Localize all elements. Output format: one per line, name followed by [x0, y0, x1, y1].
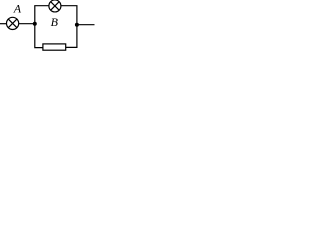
svg-text:B: B: [51, 15, 59, 29]
wire A to left node: [19, 23, 35, 25]
wire left branch loop: [35, 6, 49, 48]
lamp B: [49, 0, 61, 12]
wire right branch loop: [61, 6, 77, 48]
node left junction: [33, 22, 37, 26]
node right junction: [75, 23, 79, 27]
wire left input: [0, 23, 7, 25]
wire right output: [77, 24, 95, 26]
lamp A: [7, 17, 19, 29]
svg-text:A: A: [13, 2, 22, 16]
resistor R: [43, 44, 66, 50]
